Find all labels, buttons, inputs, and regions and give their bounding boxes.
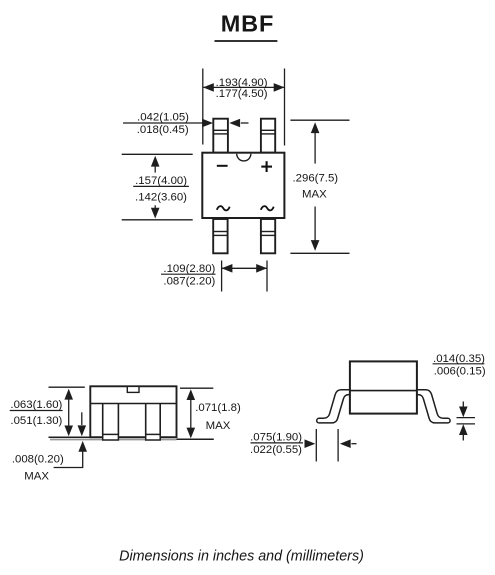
extension line bottom of .157 dim — [122, 219, 193, 221]
up arrow of .071 dim — [187, 389, 196, 400]
AC tilde right — [261, 206, 274, 210]
up arrowhead of .008 dim — [78, 441, 87, 452]
svg-text:.022(0.55): .022(0.55) — [250, 444, 302, 456]
top view: pin top-right — [261, 119, 275, 153]
extension line bottom of .296 dim — [290, 252, 349, 254]
down arrow of .071 dim — [187, 428, 196, 439]
fraction bar .157/.142 — [133, 185, 189, 187]
pin bottom-right band lines — [261, 231, 275, 233]
extension line top of .071 dim — [180, 387, 213, 389]
side view foot 2 — [146, 434, 161, 440]
svg-text:.087(2.20): .087(2.20) — [163, 276, 215, 288]
side view leg 2 lines — [145, 404, 147, 435]
title underline — [215, 40, 278, 42]
up arrow of .063 dim — [64, 389, 73, 400]
top view: package body — [202, 153, 284, 218]
extension line top of .157 dim — [122, 153, 193, 155]
down arrow of .157 dim — [154, 205, 156, 213]
left gull-wing lead — [317, 390, 351, 423]
arrowhead right .193 — [274, 83, 285, 92]
shaft of .063 dim — [68, 396, 70, 426]
lead thickness lower line — [457, 423, 476, 425]
side view body — [90, 386, 176, 437]
fraction bar .109/.087 — [161, 273, 216, 275]
right gull-wing lead — [416, 390, 450, 423]
plus sign — [261, 166, 272, 168]
tail of left-pointing arrow — [351, 443, 356, 445]
end view mid line — [350, 390, 417, 392]
standoff upper down arrow — [81, 412, 83, 425]
dimension line .109 — [222, 267, 267, 269]
up arrow to lead bottom — [462, 434, 464, 441]
extension line left of .193 dim — [202, 69, 204, 145]
svg-text:.296(7.5): .296(7.5) — [293, 173, 339, 185]
arrowhead left .193 — [203, 83, 214, 92]
leader of .008 dim — [54, 449, 83, 468]
extension line right of .109 dim — [266, 261, 268, 292]
top view: pin bottom-left — [213, 219, 227, 253]
extension line top of .063 dim — [49, 386, 85, 388]
arrowhead pointing left at pin right edge — [229, 119, 240, 128]
fraction bar .014/.006 — [433, 363, 485, 365]
end view body — [350, 361, 417, 413]
svg-text:.006(0.15): .006(0.15) — [434, 366, 486, 378]
down arrow of .063 dim — [64, 426, 73, 437]
down arrow of .296 dim — [314, 207, 316, 243]
svg-text:.042(1.05): .042(1.05) — [137, 111, 189, 123]
pin bottom-left band lines — [213, 231, 227, 233]
dimension line .193/.177 — [203, 86, 285, 88]
heel vertical line — [337, 429, 339, 462]
svg-text:Dimensions in inches and (mill: Dimensions in inches and (millimeters) — [119, 548, 364, 564]
leader line .042/.018 — [123, 122, 204, 124]
svg-text:MAX: MAX — [206, 420, 231, 432]
svg-text:MBF: MBF — [221, 11, 275, 37]
pin top-left band lines — [213, 129, 228, 131]
pcb line (gray) — [50, 439, 177, 441]
svg-text:.177(4.50): .177(4.50) — [216, 88, 268, 100]
svg-text:.018(0.45): .018(0.45) — [137, 124, 189, 136]
top view: index notch semicircle — [237, 154, 251, 161]
svg-text:.142(3.60): .142(3.60) — [135, 191, 187, 203]
svg-text:.109(2.80): .109(2.80) — [163, 263, 215, 275]
svg-text:.014(0.35): .014(0.35) — [433, 353, 485, 365]
seating plane line (black, extends left of body) — [49, 436, 93, 438]
arrowhead pointing right at toe line — [305, 439, 316, 448]
shaft of .071 dim — [190, 397, 192, 429]
pin top-right band lines — [261, 129, 275, 131]
extension line left of .109 dim — [221, 261, 223, 292]
svg-text:.071(1.8): .071(1.8) — [195, 402, 241, 414]
top view: pin bottom-right — [261, 219, 275, 253]
svg-text:.063(1.60): .063(1.60) — [10, 399, 62, 411]
pcb line continuation (black, right of body) — [177, 438, 214, 440]
AC tilde left — [217, 206, 230, 210]
arrowhead pointing right at pin left edge — [202, 119, 213, 128]
side view step line — [90, 403, 176, 405]
fraction bar .075/.022 — [251, 442, 304, 444]
svg-text:MAX: MAX — [24, 470, 49, 482]
svg-text:MAX: MAX — [302, 189, 327, 201]
side view foot 1 — [103, 434, 119, 440]
extension line right of .193 dim — [284, 69, 286, 146]
svg-text:.157(4.00): .157(4.00) — [135, 175, 187, 187]
minus sign — [217, 165, 228, 167]
fraction bar .063/.051 — [10, 410, 63, 412]
side view leg 1 lines — [102, 404, 104, 435]
svg-text:.193(4.90): .193(4.90) — [216, 77, 268, 89]
arrowhead right .109 — [256, 264, 267, 273]
top view: pin top-left — [213, 119, 228, 153]
lead thickness upper line — [457, 417, 476, 419]
side view top tab — [127, 386, 139, 392]
tail of left-pointing arrow — [241, 122, 249, 124]
up arrow of .296 dim — [314, 131, 316, 164]
svg-text:.075(1.90): .075(1.90) — [250, 431, 302, 443]
svg-text:.051(1.30): .051(1.30) — [10, 415, 62, 427]
svg-text:.008(0.20): .008(0.20) — [12, 453, 64, 465]
up arrow of .157 dim — [154, 160, 156, 173]
arrowhead pointing left at heel line — [340, 439, 351, 448]
arrowhead left .109 — [222, 264, 233, 273]
toe vertical line — [315, 429, 317, 462]
extension line top of .296 dim — [290, 119, 349, 121]
down arrow to lead top — [462, 402, 464, 409]
